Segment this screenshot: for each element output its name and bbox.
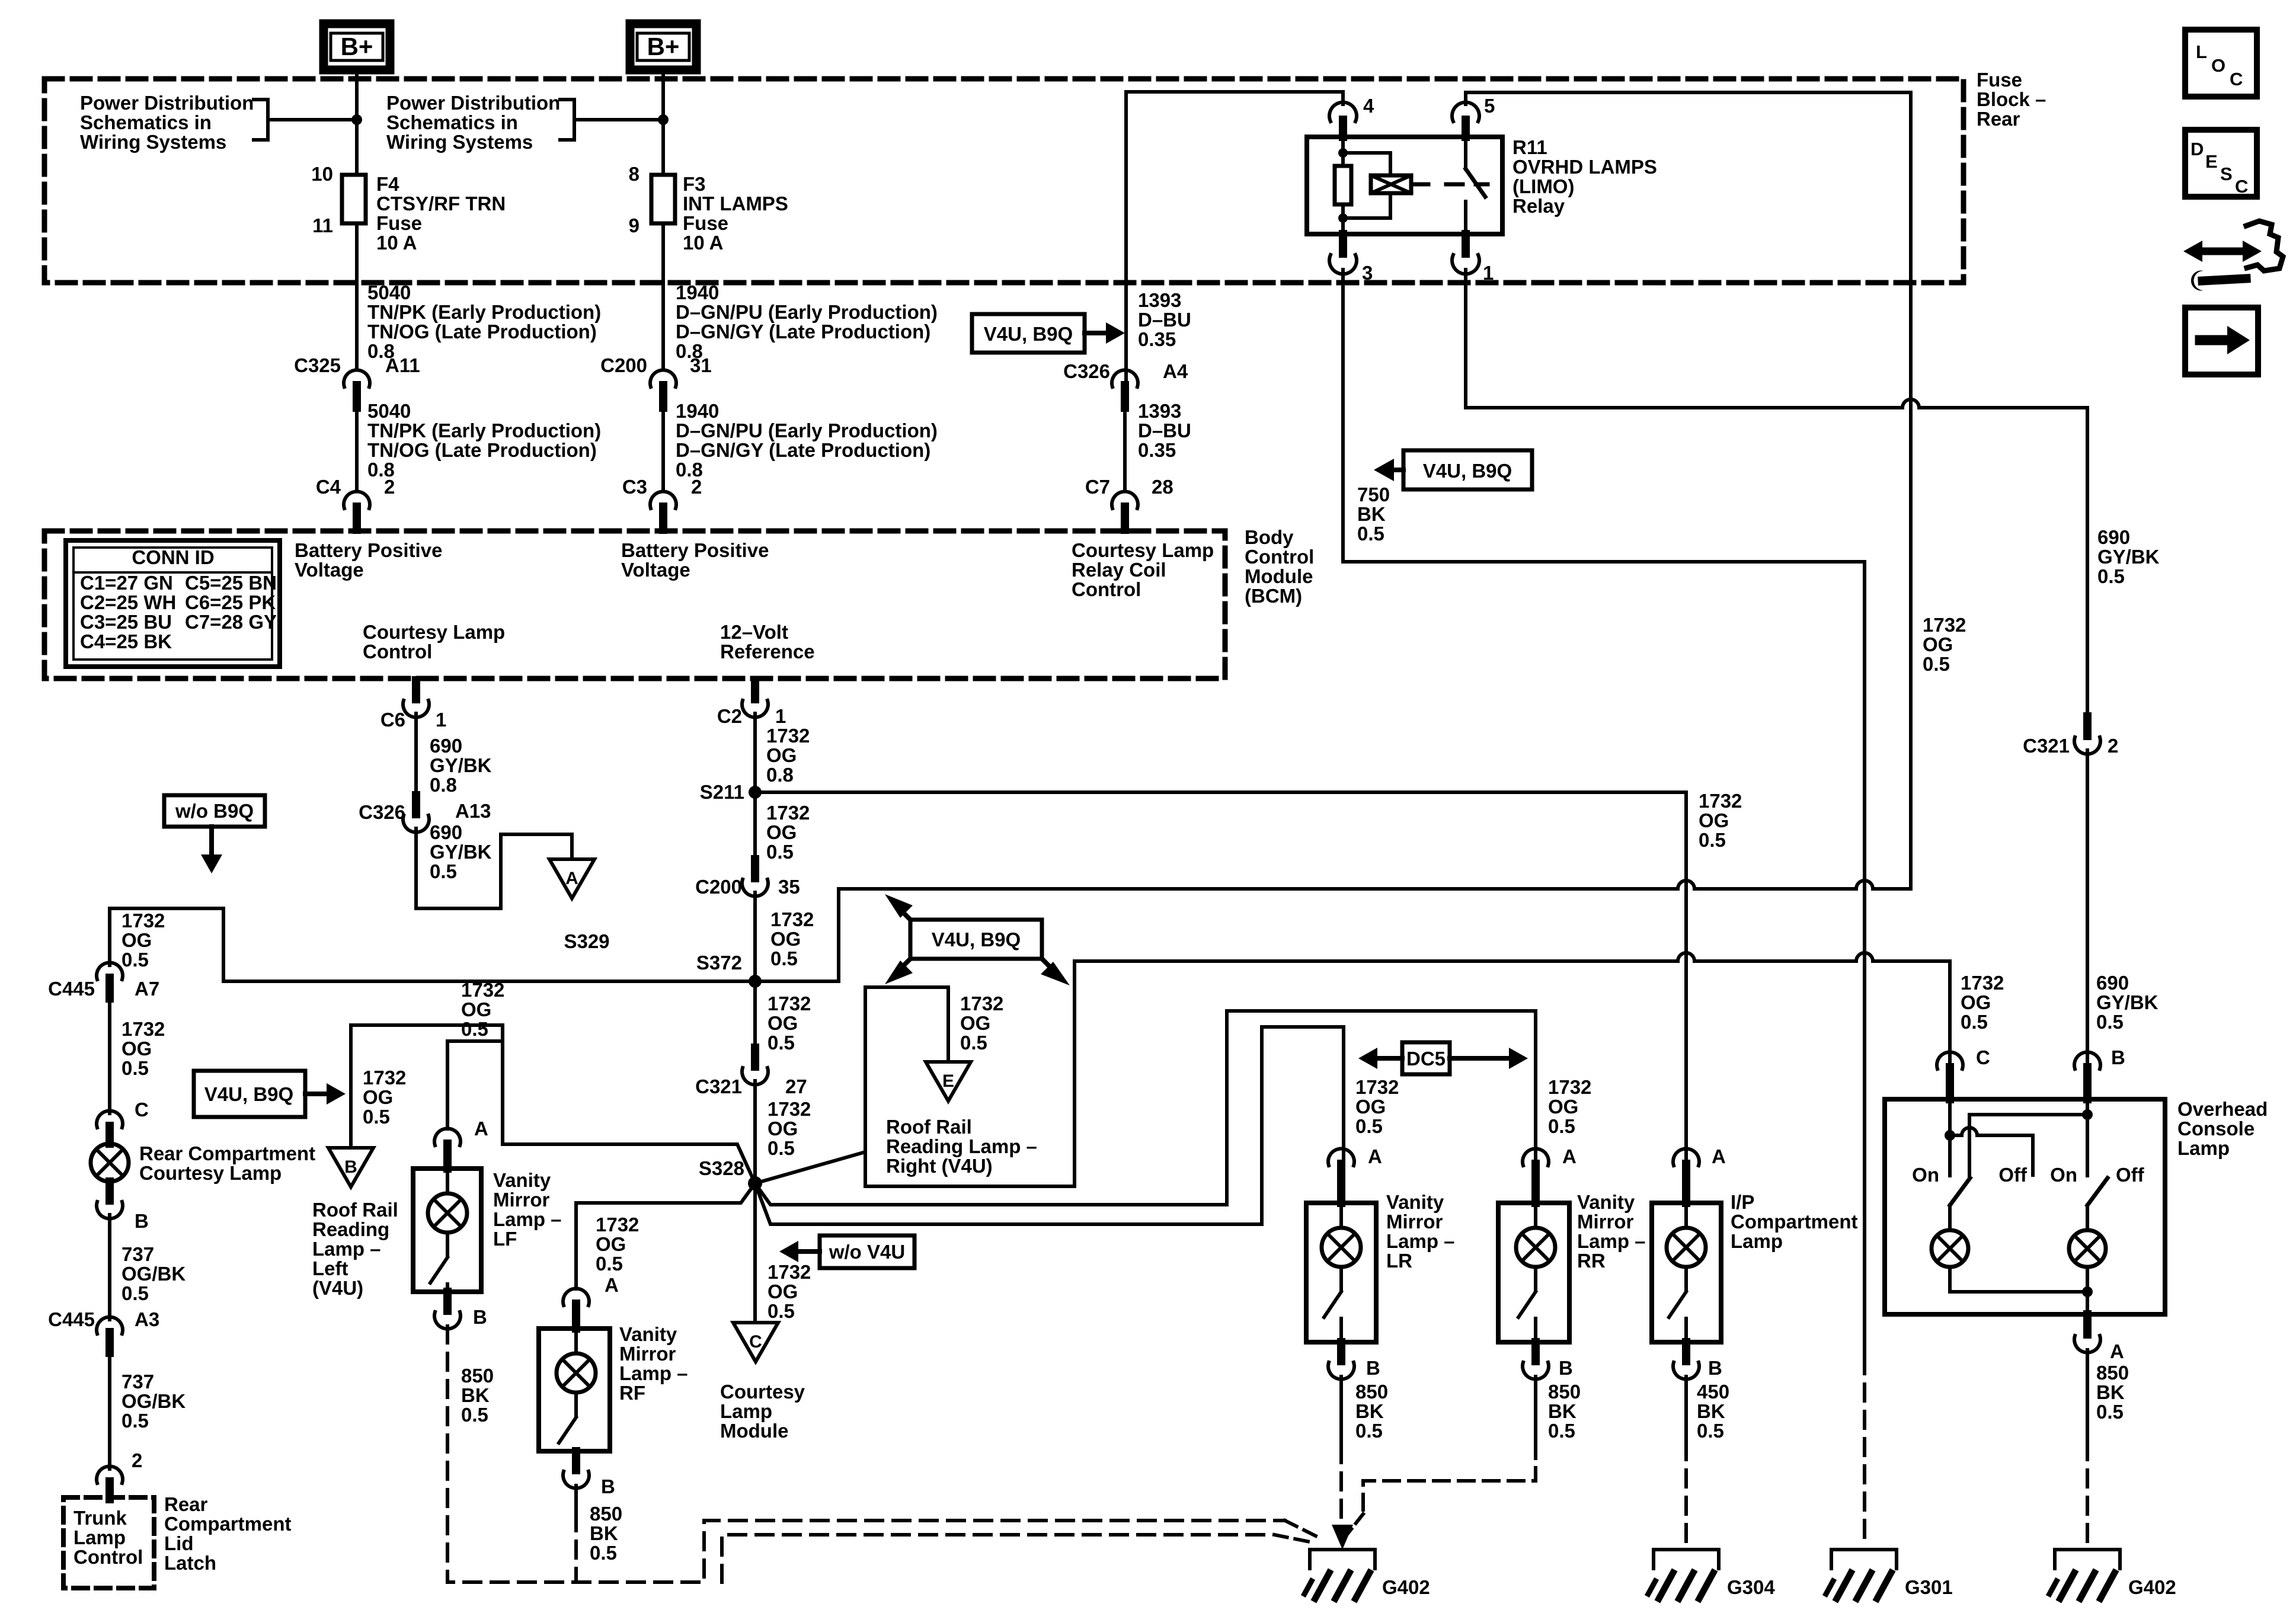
svg-text:Battery Positive: Battery Positive (295, 539, 442, 561)
svg-text:D–GN/GY (Late Production): D–GN/GY (Late Production) (676, 321, 930, 343)
svg-text:1: 1 (436, 709, 446, 731)
svg-text:C4: C4 (316, 476, 341, 498)
lamp LF switch (430, 1233, 447, 1292)
svg-text:OG: OG (766, 744, 797, 766)
wire C321-27 to S328 (753, 1081, 757, 1183)
svg-text:OG: OG (363, 1086, 393, 1108)
svg-text:Rear Compartment: Rear Compartment (139, 1142, 315, 1164)
wire main 1732 OG feed (pin5 to S372) with hops (839, 881, 1911, 889)
wire 737 OG/BK to C445-A3 (108, 1215, 111, 1320)
lamp Vanity Mirror RR box (1498, 1203, 1569, 1342)
svg-text:S372: S372 (696, 952, 742, 974)
svg-text:Courtesy Lamp: Courtesy Lamp (1072, 539, 1214, 561)
svg-text:Voltage: Voltage (621, 559, 690, 581)
wire S328 to LR branch (755, 1027, 1344, 1224)
svg-text:BK: BK (1697, 1400, 1725, 1422)
svg-text:1732: 1732 (768, 1098, 811, 1120)
svg-text:B: B (2111, 1046, 2125, 1068)
svg-text:0.5: 0.5 (461, 1018, 488, 1040)
svg-text:O: O (2211, 55, 2225, 76)
arrow SW (885, 959, 913, 984)
svg-text:Reading Lamp –: Reading Lamp – (886, 1135, 1037, 1157)
svg-text:12–Volt: 12–Volt (720, 621, 788, 643)
svg-text:I/P: I/P (1731, 1191, 1754, 1213)
svg-text:0.5: 0.5 (590, 1542, 617, 1564)
svg-text:10 A: 10 A (683, 232, 723, 254)
svg-text:Console: Console (2177, 1118, 2255, 1140)
svg-text:Control: Control (1072, 578, 1141, 600)
icon tool part outline (2246, 221, 2283, 271)
svg-text:OG: OG (596, 1233, 626, 1255)
option box V4U B9Q relay side (1403, 450, 1532, 489)
svg-text:450: 450 (1697, 1381, 1729, 1403)
wire console C riser (1948, 961, 1952, 1065)
splice S328 dot (748, 1176, 762, 1190)
svg-text:690: 690 (430, 821, 462, 843)
svg-text:D–GN/GY (Late Production): D–GN/GY (Late Production) (676, 439, 930, 461)
svg-text:GY/BK: GY/BK (2097, 546, 2160, 568)
svg-text:Control: Control (73, 1546, 143, 1568)
svg-text:850: 850 (1355, 1381, 1388, 1403)
triangle E roof rail reading lamp right (926, 1062, 971, 1101)
svg-text:OG: OG (1699, 809, 1729, 831)
connector A console (2074, 1314, 2100, 1353)
svg-text:B: B (1366, 1357, 1380, 1379)
svg-text:5040: 5040 (367, 281, 411, 303)
wire coil parallel branch (1343, 153, 1390, 175)
svg-text:0.5: 0.5 (766, 841, 794, 863)
svg-text:G304: G304 (1727, 1576, 1775, 1598)
wire H2 feed to overhead console C with hops (1075, 953, 1950, 961)
svg-text:BK: BK (1548, 1400, 1576, 1422)
svg-text:5: 5 (1484, 95, 1495, 117)
wire B+1 to fuse F4 (355, 70, 359, 175)
node dot console left (1945, 1130, 1955, 1141)
option box w/o V4U (820, 1235, 914, 1268)
wire I/P 450 BK to G304 (1684, 1377, 1688, 1548)
svg-text:C445: C445 (48, 1308, 95, 1330)
wire C321-2 to console B pin (2086, 750, 2089, 1065)
svg-text:0.5: 0.5 (768, 1032, 795, 1054)
lamp Vanity Mirror LR connector A (1328, 1148, 1354, 1203)
svg-text:CTSY/RF TRN: CTSY/RF TRN (376, 193, 506, 215)
connector C445 pin A7 (97, 962, 123, 998)
connector B RR (1523, 1342, 1549, 1379)
ground G402 left (1304, 1550, 1375, 1599)
svg-text:0.5: 0.5 (430, 860, 457, 882)
svg-text:C6: C6 (380, 709, 405, 731)
console crossover wire with hop (1950, 1128, 2033, 1175)
svg-text:(BCM): (BCM) (1245, 585, 1302, 607)
lamp RF bulb (557, 1329, 596, 1393)
svg-text:Vanity: Vanity (1386, 1191, 1444, 1213)
icon tool wrench (2191, 271, 2246, 291)
svg-text:A: A (605, 1274, 619, 1296)
svg-text:A: A (565, 869, 578, 888)
svg-text:BK: BK (1355, 1400, 1384, 1422)
svg-text:C3=25 BU: C3=25 BU (80, 611, 172, 633)
svg-text:B: B (135, 1210, 149, 1232)
svg-text:LR: LR (1386, 1250, 1412, 1272)
svg-text:27: 27 (785, 1076, 807, 1097)
node junction dot 1 (351, 114, 362, 125)
connector C325 A11 (344, 370, 370, 408)
svg-text:E: E (942, 1071, 954, 1091)
arrow V4U B9Q to wire (1085, 322, 1125, 344)
CONN ID table (66, 540, 280, 667)
trunk lamp control dashed box (63, 1497, 154, 1588)
svg-text:0.5: 0.5 (1923, 653, 1950, 675)
connector C4 pin 2 (344, 491, 370, 530)
svg-text:C: C (749, 1332, 762, 1352)
lamp Vanity Mirror LR box (1306, 1203, 1376, 1342)
svg-text:A: A (2110, 1340, 2124, 1362)
wire roof-rail-right outline bottom (865, 961, 1075, 1186)
triangle A S329 (549, 859, 594, 898)
svg-text:690: 690 (430, 735, 462, 757)
connector B LR (1328, 1342, 1354, 1379)
wire S372 riser to main feed (837, 889, 840, 981)
svg-text:Roof Rail: Roof Rail (886, 1116, 972, 1138)
console left switch blade (1950, 1178, 1970, 1205)
svg-text:0.5: 0.5 (1699, 829, 1726, 851)
lamp Vanity Mirror LF connector A (434, 1128, 461, 1169)
wire pin5 vertical (1909, 92, 1913, 889)
svg-text:C200: C200 (600, 354, 647, 376)
svg-text:1: 1 (775, 705, 786, 727)
svg-text:C321: C321 (2023, 735, 2070, 757)
svg-text:Fuse: Fuse (1977, 69, 2022, 91)
wire 737 OG/BK to trunk lamp control (108, 1353, 111, 1469)
svg-text:Roof Rail: Roof Rail (312, 1199, 398, 1221)
svg-text:S211: S211 (700, 781, 744, 803)
svg-text:OG: OG (768, 1012, 798, 1034)
dashed jog RF rail into G402 left (1274, 1535, 1316, 1543)
option box V4U B9Q middle (4-arrow) (910, 920, 1042, 959)
svg-text:L: L (2196, 41, 2207, 62)
svg-text:Battery Positive: Battery Positive (621, 539, 769, 561)
svg-text:0.5: 0.5 (2096, 1011, 2124, 1033)
svg-text:4: 4 (1363, 95, 1374, 117)
svg-text:B: B (344, 1157, 357, 1177)
svg-text:OG: OG (768, 1281, 798, 1302)
svg-text:1732: 1732 (1699, 790, 1742, 812)
svg-text:C2=25 WH: C2=25 WH (80, 591, 176, 613)
svg-text:0.5: 0.5 (1355, 1420, 1383, 1442)
svg-text:TN/OG (Late Production): TN/OG (Late Production) (367, 439, 597, 461)
svg-text:Module: Module (1245, 565, 1313, 587)
connector C200 pin 31 (650, 370, 676, 408)
bracket Power Distribution 2 (560, 100, 574, 140)
svg-text:A13: A13 (455, 800, 491, 822)
wire S328 to RR branch (755, 1011, 1536, 1205)
svg-text:Left: Left (312, 1257, 348, 1279)
connector relay pin 3 (1329, 255, 1357, 274)
svg-text:OG: OG (1355, 1096, 1386, 1118)
svg-text:737: 737 (121, 1371, 154, 1393)
svg-text:DC5: DC5 (1406, 1048, 1446, 1070)
svg-text:Voltage: Voltage (295, 559, 364, 581)
svg-text:LF: LF (493, 1228, 517, 1250)
svg-text:D–GN/PU (Early Production): D–GN/PU (Early Production) (676, 301, 938, 323)
svg-text:850: 850 (461, 1365, 494, 1387)
svg-text:Courtesy Lamp: Courtesy Lamp (139, 1162, 282, 1184)
svg-text:850: 850 (2096, 1362, 2129, 1384)
power feed B+ 1 (324, 24, 390, 70)
power feed B+ 2 (630, 24, 696, 70)
svg-text:C7=28 GY: C7=28 GY (185, 611, 277, 633)
wire C321-27 from S372 (753, 981, 757, 1048)
svg-text:Mirror: Mirror (619, 1343, 676, 1365)
wire bracket to node 1 (268, 118, 357, 121)
svg-text:Latch: Latch (164, 1552, 216, 1574)
arrow w/o B9Q down (201, 827, 222, 873)
lamp I/P Compartment box (1652, 1203, 1721, 1342)
svg-text:G402: G402 (2128, 1576, 2176, 1598)
svg-text:1732: 1732 (1961, 972, 2004, 994)
svg-text:0.5: 0.5 (121, 1410, 149, 1432)
svg-text:0.5: 0.5 (461, 1404, 488, 1426)
svg-text:1940: 1940 (676, 400, 719, 422)
lamp I/P bulb (1667, 1203, 1706, 1267)
svg-text:Mirror: Mirror (1386, 1211, 1443, 1233)
svg-text:850: 850 (590, 1503, 622, 1525)
wire resistor to box bottom (1341, 204, 1345, 234)
svg-text:1732: 1732 (596, 1214, 639, 1235)
svg-text:2: 2 (384, 476, 395, 498)
svg-text:9: 9 (629, 215, 639, 236)
lamp I/P Compartment connector A (1673, 1148, 1699, 1203)
svg-text:C: C (135, 1099, 149, 1121)
arrow into ground G402 left (1332, 1525, 1353, 1550)
ground G304 (1648, 1550, 1719, 1599)
svg-text:TN/PK (Early Production): TN/PK (Early Production) (367, 301, 601, 323)
svg-text:750: 750 (1357, 484, 1390, 505)
svg-text:OG: OG (121, 1038, 152, 1060)
svg-text:2: 2 (132, 1449, 142, 1471)
lamp Rear Compartment Courtesy Lamp (91, 1144, 129, 1182)
relay pin 3 bar (1339, 234, 1347, 254)
resistor inside relay R11 (1335, 166, 1351, 204)
svg-text:1732: 1732 (1923, 614, 1966, 636)
svg-text:C: C (1976, 1046, 1990, 1068)
svg-text:10 A: 10 A (376, 232, 417, 254)
relay switch blade (1466, 169, 1485, 197)
lamp RR switch (1518, 1267, 1536, 1342)
bracket Power Distribution 1 (254, 100, 268, 140)
svg-text:D: D (2191, 139, 2204, 159)
svg-text:35: 35 (778, 876, 800, 898)
svg-text:A4: A4 (1163, 360, 1188, 382)
overhead console lamp connector C (1937, 1052, 1963, 1099)
arrow DC5 left (1358, 1048, 1402, 1069)
wire S328 to E triangle (roof rail right) (755, 987, 948, 1183)
svg-text:737: 737 (121, 1243, 154, 1265)
svg-text:OVRHD LAMPS: OVRHD LAMPS (1512, 156, 1657, 178)
svg-text:0.5: 0.5 (1548, 1115, 1575, 1137)
svg-text:Reading: Reading (312, 1218, 389, 1240)
svg-text:0.5: 0.5 (1357, 523, 1384, 545)
connector B I/P (1673, 1342, 1699, 1379)
svg-text:Courtesy: Courtesy (720, 1381, 805, 1403)
svg-text:(LIMO): (LIMO) (1512, 175, 1574, 197)
svg-text:A7: A7 (135, 978, 159, 1000)
svg-text:GY/BK: GY/BK (430, 754, 492, 776)
node dot console bottom (2082, 1286, 2093, 1297)
svg-text:0.5: 0.5 (121, 949, 149, 971)
arrow V4U B9Q right (305, 1083, 346, 1105)
svg-text:0.5: 0.5 (2097, 565, 2125, 587)
svg-text:1732: 1732 (461, 979, 504, 1001)
svg-text:690: 690 (2097, 526, 2130, 548)
svg-text:0.8: 0.8 (766, 764, 794, 786)
svg-text:A: A (474, 1118, 488, 1140)
svg-text:31: 31 (690, 354, 712, 376)
wire S328 to RF branch (576, 1183, 755, 1289)
svg-text:Fuse: Fuse (683, 212, 728, 234)
relay R11 OVRHD LAMPS (LIMO) box (1307, 137, 1502, 234)
svg-text:Relay: Relay (1512, 195, 1565, 217)
relay switch contact bottom (1464, 201, 1467, 234)
svg-text:Lid: Lid (164, 1532, 193, 1554)
svg-text:Control: Control (363, 641, 432, 662)
svg-text:0.5: 0.5 (1961, 1011, 1988, 1033)
svg-text:C: C (2230, 69, 2243, 89)
option box DC5 (1402, 1042, 1450, 1074)
svg-text:OG/BK: OG/BK (121, 1263, 186, 1285)
svg-text:Module: Module (720, 1420, 788, 1442)
connector C321 pin 2 (2074, 716, 2100, 754)
dashed jog into G402 left (1285, 1521, 1320, 1538)
svg-text:E: E (2205, 151, 2218, 172)
svg-text:A3: A3 (135, 1308, 159, 1330)
splice S372 dot (749, 975, 762, 988)
wire RR 850 BK dashed to G402 left (1348, 1377, 1536, 1534)
wire pin3 vertical to console area (1863, 562, 1866, 1357)
connector C321 pin 27 (742, 1048, 768, 1085)
wire dashed rail lower to G402 left (722, 1535, 1274, 1582)
svg-text:A: A (1712, 1145, 1726, 1167)
svg-text:0.5: 0.5 (960, 1032, 987, 1054)
svg-text:Vanity: Vanity (619, 1323, 677, 1345)
svg-text:C325: C325 (294, 354, 341, 376)
svg-text:1732: 1732 (766, 802, 810, 824)
overhead console lamp connector B (2074, 1052, 2100, 1099)
svg-text:Lamp –: Lamp – (312, 1238, 381, 1260)
svg-text:Lamp –: Lamp – (1386, 1230, 1455, 1252)
coil element (box with X) of relay (1371, 175, 1411, 193)
wire 690 GY/BK from pin 1 (1466, 270, 1902, 408)
svg-text:F4: F4 (376, 173, 399, 195)
wire w/o B9Q branch (110, 908, 223, 981)
svg-text:11: 11 (312, 215, 333, 236)
svg-text:OG: OG (1923, 633, 1953, 655)
svg-text:C4=25 BK: C4=25 BK (80, 630, 172, 652)
svg-text:1732: 1732 (770, 908, 814, 930)
wire S328 to courtesy lamp module (753, 1183, 757, 1323)
node dot console right top (2082, 1109, 2093, 1120)
svg-text:C200: C200 (695, 876, 742, 898)
wire left column down to C445-A7 (108, 908, 111, 965)
svg-text:C5=25 BN: C5=25 BN (185, 572, 277, 594)
arrow V4U B9Q left (1374, 459, 1403, 481)
console bottom link wire (1950, 1267, 2087, 1292)
svg-text:0.5: 0.5 (1355, 1115, 1383, 1137)
svg-text:Courtesy Lamp: Courtesy Lamp (363, 621, 505, 643)
svg-text:Lamp: Lamp (73, 1526, 126, 1548)
svg-text:RF: RF (619, 1382, 645, 1404)
svg-text:INT LAMPS: INT LAMPS (683, 193, 788, 215)
connector C200 pin 35 (742, 859, 768, 897)
svg-text:TN/PK (Early Production): TN/PK (Early Production) (367, 420, 601, 441)
lamp Vanity Mirror RF connector A (563, 1288, 589, 1329)
svg-text:Rear: Rear (164, 1493, 208, 1515)
svg-text:C1=27 GN: C1=27 GN (80, 572, 173, 594)
lamp Vanity Mirror LF box (413, 1169, 481, 1292)
wire C326-A4 to C7 (1123, 408, 1127, 491)
svg-text:G301: G301 (1905, 1576, 1953, 1598)
svg-text:Lamp –: Lamp – (619, 1362, 688, 1384)
fuse block dashed box (Fuse Block - Rear) (44, 79, 1964, 283)
wire F3 to C200 (661, 223, 665, 370)
BCM dashed box (Body Control Module) (44, 531, 1225, 678)
svg-text:B: B (601, 1475, 615, 1497)
svg-text:Compartment: Compartment (1731, 1211, 1858, 1233)
svg-text:Rear: Rear (1977, 108, 2020, 130)
arrow DC5 right (1450, 1048, 1528, 1069)
svg-text:1732: 1732 (768, 993, 811, 1014)
svg-text:GY/BK: GY/BK (430, 841, 492, 863)
svg-text:C3: C3 (622, 476, 647, 498)
svg-text:BK: BK (590, 1522, 618, 1544)
svg-text:C326: C326 (359, 801, 405, 823)
connector relay pin 5 (1452, 103, 1479, 137)
svg-text:Power Distribution: Power Distribution (386, 92, 560, 114)
svg-text:1732: 1732 (766, 725, 810, 747)
wire bracket to node 2 (574, 118, 663, 121)
wire S372 horizontal (223, 980, 839, 983)
svg-text:C2: C2 (717, 705, 742, 727)
connector C3 pin 2 (650, 491, 676, 530)
svg-text:B+: B+ (647, 33, 680, 60)
node junction dot 2 (658, 114, 669, 125)
svg-text:OG: OG (766, 821, 797, 843)
svg-text:1732: 1732 (960, 993, 1003, 1014)
connector C7 pin 28 (1112, 491, 1138, 530)
connector B rear lamp (97, 1182, 123, 1219)
lamp LR bulb (1322, 1203, 1361, 1267)
svg-text:3: 3 (1362, 262, 1373, 284)
svg-text:Lamp –: Lamp – (493, 1208, 562, 1230)
svg-text:OG: OG (960, 1012, 990, 1034)
svg-text:1732: 1732 (121, 1018, 165, 1040)
svg-text:V4U, B9Q: V4U, B9Q (1423, 460, 1512, 482)
wire relay pin4 feed horizontal (1126, 92, 1343, 394)
arrow w/o V4U left (779, 1241, 820, 1262)
svg-text:OG: OG (1961, 991, 1991, 1013)
svg-text:RR: RR (1577, 1250, 1606, 1272)
console left switch feed (1948, 1099, 1952, 1176)
connector pin 2 trunk (97, 1466, 123, 1499)
wire F4 to C325 (355, 223, 359, 370)
svg-text:F3: F3 (683, 173, 706, 195)
svg-text:Mirror: Mirror (1577, 1211, 1634, 1233)
svg-text:BK: BK (461, 1384, 490, 1406)
triangle C courtesy lamp module (733, 1323, 778, 1362)
overhead console lamp box (1885, 1099, 2165, 1314)
svg-text:B: B (473, 1306, 487, 1328)
icon DESC box (2185, 130, 2257, 197)
